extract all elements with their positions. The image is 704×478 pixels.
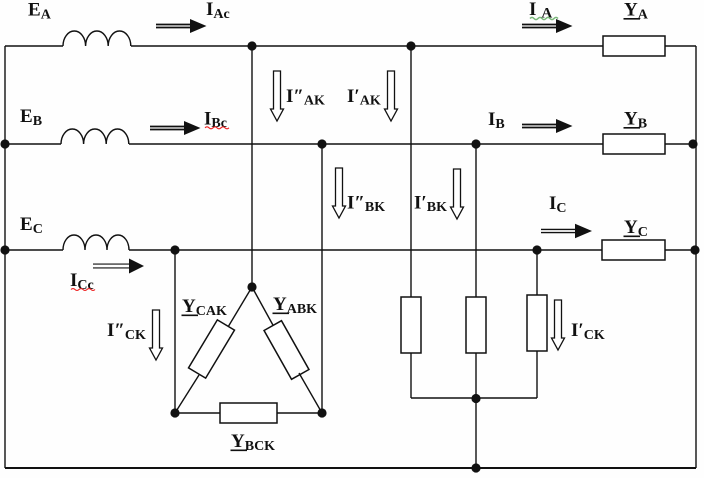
svg-text:I″CK: I″CK bbox=[107, 320, 146, 343]
arrow current I_A bbox=[522, 19, 573, 33]
wire: phase A rail to Y_A box bbox=[131, 45, 603, 47]
node delta right bbox=[317, 408, 326, 417]
svg-text:ICc: ICc bbox=[70, 270, 94, 293]
node A1 bbox=[247, 41, 256, 50]
wire: vertical branch 3 lower bbox=[536, 351, 538, 398]
node delta apex bbox=[247, 282, 256, 291]
svg-text:IAc: IAc bbox=[206, 0, 230, 22]
red squiggle under Cc bbox=[71, 289, 95, 291]
wire: left vertical bus bbox=[4, 46, 6, 468]
svg-text:I′BK: I′BK bbox=[414, 193, 447, 216]
svg-text:IBc: IBc bbox=[204, 109, 227, 132]
node C right bbox=[690, 245, 699, 254]
node A2 bbox=[406, 41, 415, 50]
arrow current I'_CK (hollow) bbox=[552, 300, 565, 350]
node C1 bbox=[170, 245, 179, 254]
svg-text:I″AK: I″AK bbox=[286, 86, 325, 109]
arrow current I''_AK (hollow) bbox=[271, 71, 284, 121]
wire: delta left leg lower bbox=[175, 375, 199, 413]
arrow current I''_CK (hollow) bbox=[150, 310, 163, 360]
wire: delta right leg lower bbox=[299, 373, 322, 413]
admittance Y_A box bbox=[603, 36, 665, 56]
arrow current I_Bc bbox=[150, 121, 201, 135]
node delta left bbox=[170, 408, 179, 417]
wire: vertical branch 2 upper (from B rail) bbox=[475, 144, 477, 297]
wire: bottom neutral rail bbox=[5, 467, 696, 469]
wire: phase A rail left segment bbox=[5, 45, 63, 47]
wire: phase B rail right of Y_B bbox=[665, 143, 696, 145]
svg-text:IC: IC bbox=[549, 193, 567, 216]
wire: right vertical bus bbox=[695, 46, 697, 468]
node B2 bbox=[471, 139, 480, 148]
resistor load box 2 bbox=[466, 297, 486, 353]
node B left bbox=[0, 139, 9, 148]
wire: vertical from node B1 down to delta right vertex bbox=[321, 144, 323, 413]
wire: phase B rail to Y_B box bbox=[129, 143, 603, 145]
wire: vertical branch 1 upper (from A rail) bbox=[410, 46, 412, 297]
wire: delta bottom right stub bbox=[277, 412, 322, 414]
resistor load box 1 bbox=[401, 297, 421, 353]
arrow current I'_BK (hollow) bbox=[451, 169, 464, 219]
wire: phase C rail right of Y_C bbox=[665, 249, 696, 251]
wire: star-point bus joining three branches bbox=[411, 397, 537, 399]
red squiggle under Bc bbox=[205, 127, 229, 129]
admittance Y_C box bbox=[602, 240, 665, 260]
node C left bbox=[0, 245, 9, 254]
svg-text:EB: EB bbox=[20, 106, 42, 129]
svg-text:EC: EC bbox=[20, 214, 43, 237]
wire: vertical branch 1 lower bbox=[410, 353, 412, 398]
svg-text:I′CK: I′CK bbox=[571, 320, 605, 343]
node B right bbox=[688, 139, 697, 148]
admittance Y_BCK box bbox=[220, 403, 277, 423]
wire: phase C rail left segment bbox=[5, 249, 63, 251]
inductor LB (source E_B winding) bbox=[61, 129, 129, 144]
wire: delta bottom left stub bbox=[175, 412, 220, 414]
wire: delta left leg upper bbox=[228, 287, 252, 327]
wire: phase B rail left segment bbox=[5, 143, 61, 145]
svg-text:I″BK: I″BK bbox=[347, 193, 385, 216]
wire: delta right leg upper bbox=[252, 287, 274, 327]
arrow current I_C bbox=[541, 224, 592, 239]
wire: vertical from node C1 down to delta left vertex bbox=[174, 250, 176, 413]
wire: phase C rail to Y_C box bbox=[129, 249, 602, 251]
node C2 bbox=[532, 245, 541, 254]
node star point bbox=[471, 394, 480, 403]
svg-text:IB: IB bbox=[488, 109, 505, 132]
wire: star point to neutral rail bbox=[475, 398, 477, 468]
svg-text:EA: EA bbox=[28, 0, 52, 23]
node neutral bbox=[471, 463, 480, 472]
arrow current I_B bbox=[522, 119, 573, 133]
arrow current I'_AK (hollow) bbox=[385, 71, 398, 121]
arrow current I''_BK (hollow) bbox=[333, 168, 346, 218]
inductor LA (source E_A winding) bbox=[63, 31, 131, 46]
resistor load box 3 bbox=[527, 295, 547, 351]
inductor LC (source E_C winding) bbox=[63, 235, 129, 250]
arrow current I_Ac bbox=[156, 19, 207, 33]
wire: vertical branch 3 upper (from C rail) bbox=[536, 250, 538, 295]
node B1 bbox=[317, 139, 326, 148]
admittance Y_CAK box (rotated) bbox=[189, 320, 235, 378]
admittance Y_B box bbox=[603, 134, 665, 154]
svg-text:I′AK: I′AK bbox=[347, 86, 381, 109]
wire: vertical branch 2 lower bbox=[475, 353, 477, 398]
wire: phase A rail right of Y_A bbox=[665, 45, 696, 47]
arrow current I_Cc bbox=[93, 259, 144, 274]
wire: vertical from node A1 down to delta apex bbox=[251, 46, 253, 287]
green squiggle under I_A bbox=[530, 17, 558, 19]
admittance Y_ABK box (rotated) bbox=[264, 321, 309, 380]
